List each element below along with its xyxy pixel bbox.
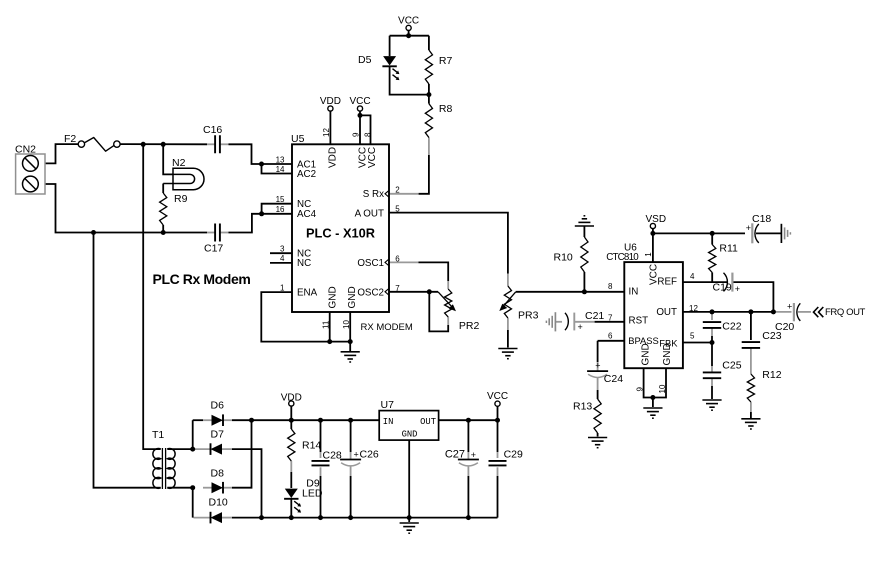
svg-text:3: 3 (280, 245, 285, 254)
svg-text:1: 1 (644, 252, 653, 257)
svg-text:15: 15 (276, 195, 285, 204)
svg-text:GND: GND (402, 430, 418, 440)
svg-text:D7: D7 (211, 429, 225, 441)
svg-text:C18: C18 (752, 213, 771, 225)
svg-text:OUT: OUT (656, 307, 677, 318)
svg-text:9: 9 (352, 132, 361, 137)
svg-text:GND: GND (327, 286, 338, 308)
svg-text:D8: D8 (211, 468, 225, 480)
svg-text:C23: C23 (762, 330, 781, 342)
svg-text:12: 12 (322, 128, 331, 137)
svg-text:10: 10 (658, 384, 667, 393)
svg-text:PR3: PR3 (518, 310, 539, 322)
svg-text:ENA: ENA (297, 288, 318, 299)
svg-text:REF: REF (657, 276, 677, 287)
svg-text:11: 11 (322, 320, 331, 329)
svg-text:8: 8 (364, 132, 373, 137)
svg-text:+: + (354, 450, 359, 460)
svg-text:R14: R14 (302, 440, 321, 452)
svg-text:VCC: VCC (649, 264, 660, 285)
svg-text:VDD: VDD (320, 96, 341, 107)
svg-text:C24: C24 (604, 373, 623, 385)
svg-text:T1: T1 (152, 429, 164, 441)
svg-text:C26: C26 (360, 449, 379, 461)
svg-text:C19: C19 (713, 282, 732, 294)
svg-text:5: 5 (690, 332, 695, 341)
svg-text:4: 4 (280, 254, 285, 263)
svg-text:C28: C28 (323, 450, 342, 462)
svg-text:C17: C17 (204, 243, 223, 255)
svg-text:R8: R8 (439, 103, 453, 115)
svg-text:IN: IN (383, 417, 394, 427)
svg-text:C27: C27 (445, 449, 465, 461)
svg-text:IN: IN (629, 287, 639, 298)
svg-text:R13: R13 (573, 401, 592, 413)
svg-text:4: 4 (690, 272, 695, 281)
svg-text:2: 2 (395, 186, 400, 195)
svg-text:VDD: VDD (327, 147, 338, 168)
svg-text:VSD: VSD (646, 214, 667, 225)
svg-text:R9: R9 (174, 193, 188, 205)
svg-text:F2: F2 (64, 133, 76, 145)
svg-text:PR2: PR2 (459, 320, 480, 332)
svg-text:LED: LED (302, 488, 323, 500)
svg-text:C25: C25 (722, 360, 741, 372)
svg-text:S Rx: S Rx (363, 189, 384, 200)
svg-text:14: 14 (276, 165, 285, 174)
svg-text:VCC: VCC (487, 391, 508, 402)
svg-text:FRQ OUT: FRQ OUT (825, 307, 866, 318)
svg-text:+: + (578, 322, 583, 332)
svg-text:+: + (595, 361, 600, 371)
svg-text:A OUT: A OUT (355, 209, 384, 220)
svg-text:16: 16 (276, 205, 285, 214)
svg-text:NC: NC (297, 258, 311, 269)
svg-text:GND: GND (662, 343, 673, 365)
svg-text:R7: R7 (439, 55, 453, 67)
svg-text:+: + (471, 450, 476, 460)
svg-text:VCC: VCC (349, 96, 370, 107)
svg-text:U7: U7 (381, 399, 395, 411)
svg-text:9: 9 (636, 387, 645, 392)
svg-text:GND: GND (347, 286, 358, 308)
svg-text:GND: GND (640, 343, 651, 365)
svg-text:12: 12 (689, 304, 698, 313)
svg-text:5: 5 (395, 204, 400, 213)
svg-text:6: 6 (395, 254, 400, 263)
svg-text:N2: N2 (172, 157, 186, 169)
svg-text:PLC - X10R: PLC - X10R (306, 226, 375, 241)
svg-text:AC4: AC4 (297, 209, 317, 220)
svg-text:RX MODEM: RX MODEM (361, 322, 413, 333)
svg-text:U5: U5 (291, 133, 305, 145)
svg-text:C16: C16 (203, 124, 222, 136)
svg-text:CTC810: CTC810 (606, 252, 639, 263)
svg-text:R10: R10 (554, 252, 573, 264)
svg-text:D10: D10 (209, 497, 228, 509)
svg-text:R11: R11 (719, 243, 738, 255)
svg-text:VCC: VCC (367, 147, 378, 168)
svg-text:8: 8 (608, 282, 613, 291)
svg-text:+: + (735, 284, 740, 294)
svg-text:CN2: CN2 (15, 144, 36, 156)
svg-text:+: + (787, 302, 792, 312)
svg-text:6: 6 (608, 332, 613, 341)
svg-text:C21: C21 (585, 310, 604, 322)
svg-text:7: 7 (608, 313, 613, 322)
svg-text:VDD: VDD (281, 393, 302, 404)
svg-text:OSC1: OSC1 (357, 258, 384, 269)
svg-text:D6: D6 (211, 400, 225, 412)
svg-text:OUT: OUT (420, 417, 436, 427)
svg-text:1: 1 (280, 283, 285, 292)
svg-text:+: + (746, 223, 751, 233)
svg-text:PLC Rx Modem: PLC Rx Modem (153, 271, 251, 287)
svg-text:7: 7 (395, 284, 400, 293)
svg-text:10: 10 (342, 320, 351, 329)
svg-text:C29: C29 (504, 449, 523, 461)
svg-text:13: 13 (276, 155, 285, 164)
svg-text:AC2: AC2 (297, 169, 316, 180)
svg-text:OSC2: OSC2 (357, 288, 384, 299)
svg-text:RST: RST (629, 316, 649, 327)
svg-text:VCC: VCC (398, 16, 419, 27)
svg-text:C22: C22 (722, 321, 741, 333)
svg-text:R12: R12 (762, 369, 781, 381)
svg-text:D5: D5 (358, 54, 372, 66)
